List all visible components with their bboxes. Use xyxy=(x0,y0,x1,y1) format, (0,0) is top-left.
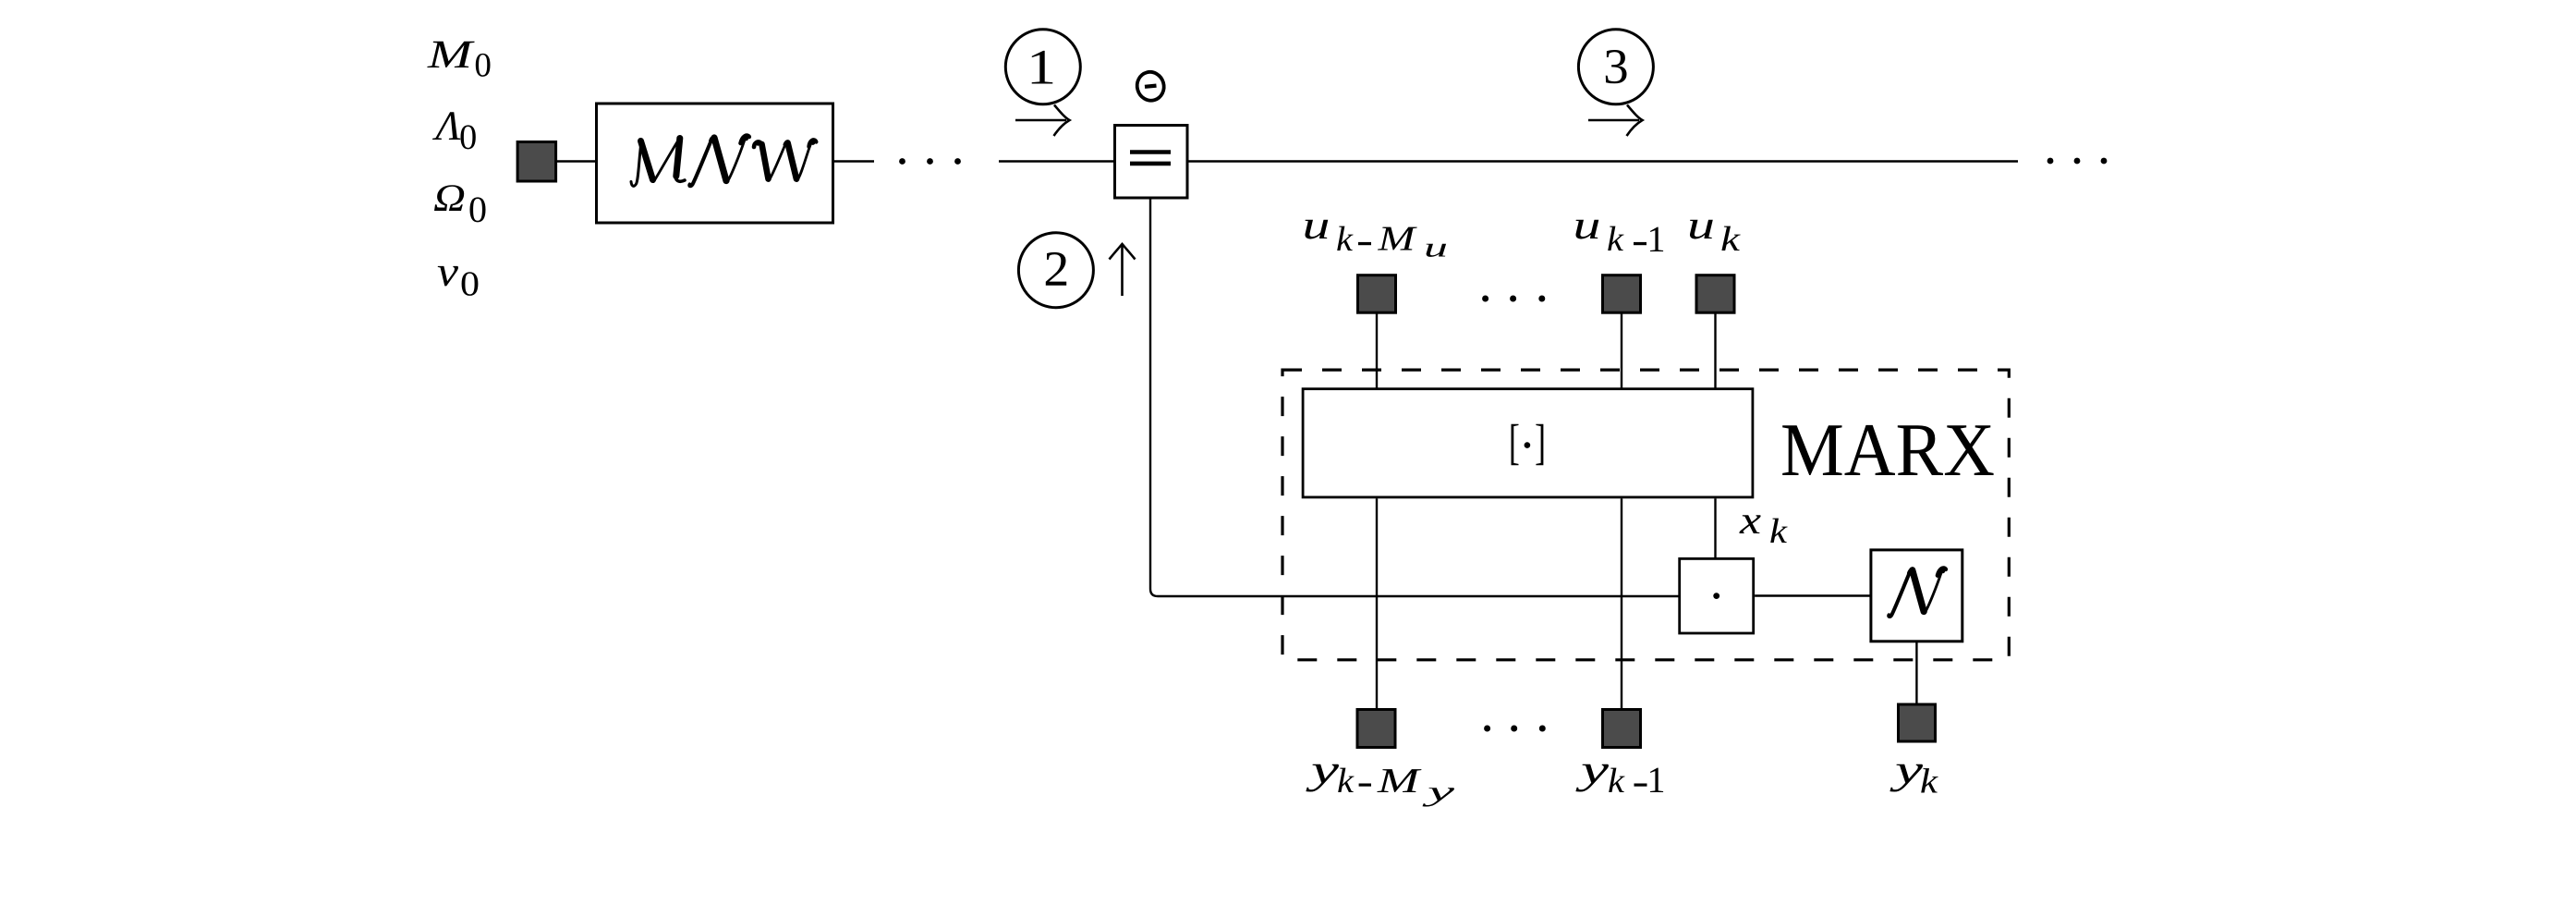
node Omega0 label xyxy=(434,185,486,222)
factor N box xyxy=(1871,550,1962,642)
message 1 circle xyxy=(1005,30,1080,104)
concatenation factor box xyxy=(1303,389,1753,497)
Theta label xyxy=(1134,68,1167,104)
label u_k xyxy=(1690,220,1741,251)
label u_k-Mu xyxy=(1306,220,1447,257)
wire N factor to y_k square xyxy=(1915,642,1917,703)
prior observed square xyxy=(517,142,556,182)
label y_k xyxy=(1889,764,1938,793)
message 3 arrow xyxy=(1588,105,1643,137)
wire concat to y_k-1 square xyxy=(1621,498,1622,709)
MARX label xyxy=(1782,425,1993,475)
calligraphic N of MNW xyxy=(689,136,749,187)
calligraphic M of MNW xyxy=(631,139,685,187)
message 2 up arrow xyxy=(1110,244,1136,296)
wire dot multiplier to N factor xyxy=(1755,594,1870,596)
node Lambda0 label xyxy=(432,112,476,149)
calligraphic N glyph in N box xyxy=(1889,569,1946,617)
y_k-1 observed square xyxy=(1603,710,1641,748)
wire u_k square to concat box xyxy=(1714,313,1716,388)
label x_k xyxy=(1739,515,1787,543)
wire concat to dot multiplier x_k xyxy=(1714,498,1716,558)
wire concat to y_k-My square xyxy=(1376,498,1378,709)
message 3 circle xyxy=(1578,30,1653,104)
label y_k-My xyxy=(1306,764,1454,807)
u_k observed square xyxy=(1696,275,1734,313)
label u_k-1 xyxy=(1576,220,1664,251)
message 1 arrow xyxy=(1015,105,1070,137)
wire prior square to MNW xyxy=(556,160,596,162)
label y_k-1 xyxy=(1575,764,1663,792)
u_k-Mu observed square xyxy=(1358,275,1396,313)
ellipsis dots right end xyxy=(2047,158,2108,165)
wire dots to equality node xyxy=(999,160,1113,162)
wire equality node down and right to dot multiplier xyxy=(1150,200,1679,597)
y ellipsis dots xyxy=(1484,726,1546,732)
node nu0 label xyxy=(438,266,479,296)
wire MNW to dots xyxy=(834,160,874,162)
MARX dashed box xyxy=(1282,370,2009,660)
u ellipsis dots xyxy=(1482,296,1545,302)
node M0 label xyxy=(427,42,490,77)
u_k-1 observed square xyxy=(1603,275,1641,313)
factor MNW box xyxy=(597,104,833,223)
wire u_k-Mu square to concat box xyxy=(1376,313,1378,388)
dot multiplier factor box xyxy=(1680,558,1754,633)
message 2 circle xyxy=(1018,233,1093,308)
ellipsis dots on main edge xyxy=(899,158,961,165)
equality node box xyxy=(1115,126,1188,199)
y_k-My observed square xyxy=(1357,710,1395,748)
wire equality node to right dots xyxy=(1189,160,2019,162)
y_k observed square xyxy=(1899,704,1936,741)
calligraphic W of MNW xyxy=(754,140,816,180)
wire u_k-1 square to concat box xyxy=(1621,313,1622,388)
